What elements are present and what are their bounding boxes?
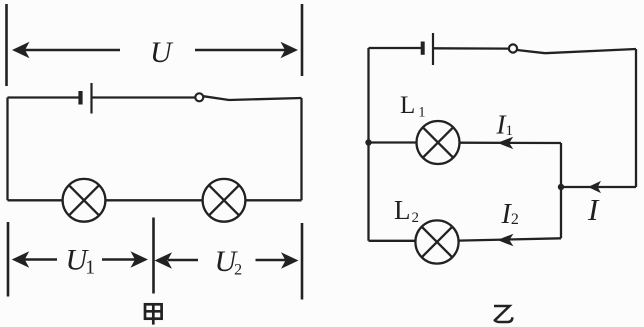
wire top-left segment of right circuit (left edge to battery) bbox=[369, 47, 421, 49]
wire L2 branch left (edge to lamp) bbox=[369, 240, 416, 242]
wire switch to top-right corner bbox=[545, 49, 636, 53]
wire switch to top-right corner bbox=[229, 98, 302, 100]
wire battery to switch bbox=[93, 96, 196, 98]
svg-text:I: I bbox=[587, 192, 600, 227]
wire I segment (right edge to junction) with current arrow I bbox=[562, 181, 636, 193]
wire L1 branch left (edge to lamp) bbox=[369, 141, 417, 143]
voltage arrow U1 (double-headed) bbox=[12, 251, 148, 267]
lamp L2 bbox=[415, 220, 458, 263]
switch S1 bbox=[195, 93, 229, 101]
measurement bar bottom-middle (U1/U2 divider) bbox=[152, 218, 155, 294]
lamp (right, series) bbox=[203, 179, 246, 222]
battery B2 bbox=[423, 33, 433, 65]
wire bottom-right segment bbox=[245, 199, 301, 201]
label jia (caption of left circuit) bbox=[145, 304, 162, 324]
wire left edge bbox=[6, 98, 8, 201]
junction node (left, L1 tap) bbox=[365, 139, 371, 145]
label yi (caption of right circuit) bbox=[494, 306, 512, 322]
measurement bar bottom-right (U2 span) bbox=[301, 223, 304, 300]
wire bottom-left segment bbox=[8, 199, 63, 201]
wire right edge bbox=[300, 98, 302, 200]
measurement bar top-left (U span) bbox=[5, 4, 8, 86]
wire left edge of right circuit bbox=[367, 48, 369, 241]
lamp (left, series) bbox=[63, 179, 106, 222]
wire right edge bbox=[635, 49, 637, 187]
voltage arrow U (double-headed) bbox=[12, 42, 298, 58]
battery B1 bbox=[81, 83, 92, 114]
wire top-left segment (left edge to battery) bbox=[8, 96, 79, 98]
junction node (right, where I splits) bbox=[558, 184, 564, 190]
wire between lamps bbox=[105, 199, 202, 201]
wire join vertical (L1/L2 branches to junction) bbox=[560, 143, 562, 238]
measurement bar top-right (U span) bbox=[301, 4, 304, 76]
wire L2 branch right (lamp to join) with current arrow I2 bbox=[459, 234, 562, 247]
lamp L1 bbox=[417, 121, 460, 164]
svg-text:U: U bbox=[150, 36, 174, 69]
wire battery to switch bbox=[434, 47, 509, 50]
measurement bar bottom-left (U1 span) bbox=[7, 222, 10, 297]
switch S2 bbox=[509, 44, 545, 53]
voltage arrow U2 (double-headed) bbox=[155, 252, 299, 268]
wire L1 branch right (lamp to join) with current arrow I1 bbox=[460, 137, 562, 149]
